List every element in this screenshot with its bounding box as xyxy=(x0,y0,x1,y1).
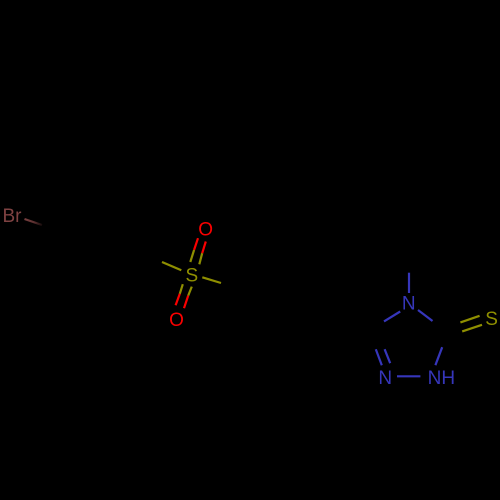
bond C3=S2 double bond line 2 (sulfur half) xyxy=(462,325,482,332)
svg-text:Br: Br xyxy=(3,206,23,227)
svg-text:S: S xyxy=(185,265,198,286)
bond S1=O1 double bond line 2 (oxygen half) xyxy=(202,242,206,254)
bond C3=S2 double bond line 1 (sulfur half) xyxy=(460,316,479,323)
bond Br-C (bromine half, aryl half invisible) xyxy=(25,219,43,225)
bond S1-C(phenylene) (sulfur half) xyxy=(202,277,221,283)
bond S1=O1 double bond line 1 (sulfur half) xyxy=(190,250,194,262)
svg-text:N: N xyxy=(378,368,392,389)
svg-text:N: N xyxy=(402,294,416,315)
bond C5=N2 double bond line 2 (nitrogen half) xyxy=(385,349,391,363)
bond S1=O2 double bond line 2 (sulfur half) xyxy=(188,287,192,296)
bond N4-C5 (nitrogen half) xyxy=(384,312,400,322)
svg-text:O: O xyxy=(169,310,184,331)
bond S1=O2 double bond line 1 (oxygen half) xyxy=(176,294,180,305)
svg-text:O: O xyxy=(198,220,213,241)
bond S1=O2 double bond line 2 (oxygen half) xyxy=(184,296,188,309)
bond S1=O1 double bond line 2 (sulfur half) xyxy=(199,253,202,264)
bond C5=N2 double bond line 1 (nitrogen half) xyxy=(376,349,382,365)
bond S1=O1 double bond line 1 (oxygen half) xyxy=(194,238,198,250)
bond N4-CH3 (nitrogen half of methyl bond) xyxy=(408,273,410,293)
bond N4-C3 (nitrogen half) xyxy=(418,310,433,321)
bond S1=O2 double bond line 1 (sulfur half) xyxy=(180,284,183,294)
svg-text:NH: NH xyxy=(428,368,455,389)
bond N1-N2 (nitrogen-nitrogen bond) xyxy=(397,375,420,377)
bond S1-C(bromophenyl) (sulfur half) xyxy=(162,262,181,270)
bond C3-N1 (nitrogen half) xyxy=(435,347,442,365)
svg-text:S: S xyxy=(485,309,498,330)
